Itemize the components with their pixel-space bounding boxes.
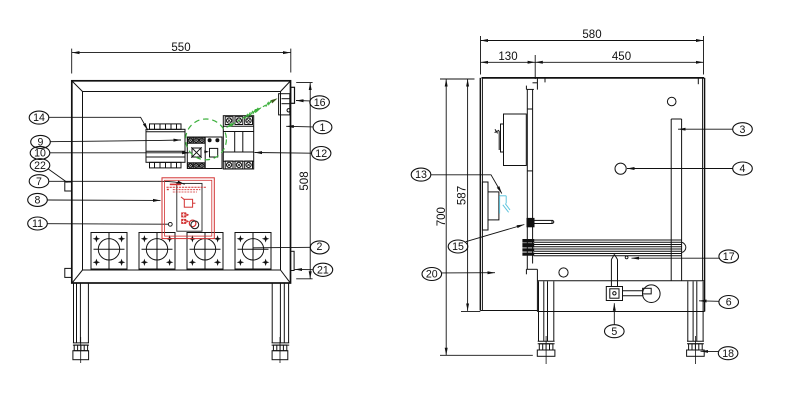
svg-text:2: 2: [317, 241, 323, 253]
svg-text:7: 7: [36, 176, 42, 188]
svg-text:130: 130: [498, 51, 517, 63]
svg-text:550: 550: [171, 42, 190, 54]
svg-text:1: 1: [320, 122, 326, 134]
svg-text:6: 6: [726, 297, 732, 309]
svg-text:17: 17: [723, 251, 735, 263]
svg-text:8: 8: [35, 195, 41, 207]
svg-text:15: 15: [452, 241, 464, 253]
svg-text:508: 508: [299, 171, 311, 190]
svg-text:20: 20: [426, 269, 438, 281]
svg-text:13: 13: [415, 169, 427, 181]
svg-text:5: 5: [611, 326, 617, 338]
svg-text:580: 580: [582, 29, 601, 41]
svg-text:10: 10: [34, 148, 46, 160]
svg-text:18: 18: [722, 348, 734, 360]
svg-text:14: 14: [33, 112, 45, 124]
svg-text:4: 4: [740, 163, 746, 175]
svg-text:22: 22: [34, 160, 46, 172]
svg-text:700: 700: [436, 207, 448, 226]
svg-text:21: 21: [317, 264, 329, 276]
svg-text:12: 12: [315, 148, 327, 160]
svg-text:3: 3: [740, 124, 746, 136]
svg-text:11: 11: [32, 218, 43, 230]
svg-text:16: 16: [314, 97, 326, 109]
svg-text:450: 450: [612, 51, 631, 63]
svg-text:587: 587: [457, 186, 469, 205]
